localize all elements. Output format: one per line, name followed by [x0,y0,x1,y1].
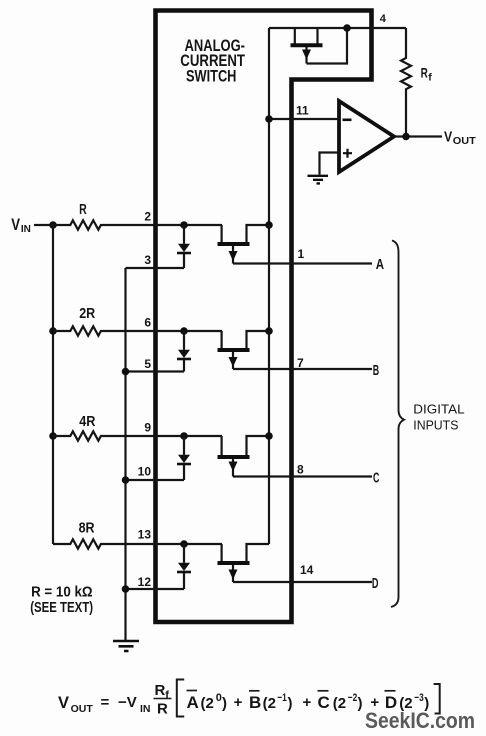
svg-text:(SEE TEXT): (SEE TEXT) [30,600,93,616]
formula right bracket [434,684,440,714]
transistor Q5 drain lead [316,28,318,44]
node ladder row2 [122,368,130,376]
wire pin 10 [126,479,185,481]
svg-text:2R: 2R [79,306,95,322]
svg-text:(2: (2 [201,695,214,712]
IC box U1 analog current switch outline [156,11,372,623]
svg-text:): ) [288,695,293,712]
formula overbar B [249,690,260,692]
wire pin 4 net horizontal [269,27,406,29]
svg-text:SeekIC.com: SeekIC.com [365,708,475,733]
svg-text:A: A [376,257,385,273]
svg-text:10: 10 [138,465,152,479]
transistor Q5 gate arrow [305,47,307,64]
svg-text:−3: −3 [414,692,424,704]
svg-text:+: + [234,694,243,711]
svg-text:DIGITAL: DIGITAL [413,403,464,417]
svg-text:R: R [79,202,87,218]
svg-text:2: 2 [144,210,151,224]
svg-text:(2: (2 [333,695,346,712]
svg-text:R: R [155,682,166,699]
svg-text:5: 5 [144,357,151,371]
wire left rail [52,225,54,544]
op-amp minus sign [343,119,352,122]
svg-text:C: C [318,693,330,712]
node bus row3 [265,432,273,440]
node VIN junction [49,221,57,229]
transistor Q4 [218,544,270,582]
formula left bracket [177,680,184,717]
transistor Q1 [218,225,270,264]
ground under op-amp [308,176,329,184]
node ladder row3 [122,476,130,484]
wire output B [233,368,372,370]
node diode D2 tap [180,327,188,335]
node bus row2 [265,327,273,335]
wire output D [233,581,372,583]
node junction at pin4 wire [343,24,351,32]
svg-text:A: A [187,693,199,712]
svg-text:6: 6 [144,316,151,330]
node ladder row4 [122,585,130,593]
node diode D1 tap [180,221,188,229]
svg-text:SWITCH: SWITCH [186,66,236,85]
svg-text:IN: IN [21,224,31,235]
svg-text:−2: −2 [348,692,358,704]
svg-text:1: 1 [298,247,305,261]
formula overbar D [385,690,396,692]
transistor Q5 channel bar [291,43,323,47]
wire ladder to ground [124,268,126,640]
svg-text:=: = [101,694,110,711]
svg-text:OUT: OUT [71,703,94,715]
diode D4 [177,544,191,589]
svg-text:0: 0 [216,692,222,704]
svg-text:R: R [157,701,168,718]
formula overbar A [187,690,198,692]
svg-text:4: 4 [380,13,387,25]
svg-text:V: V [444,129,452,146]
transistor Q3 [218,436,270,477]
svg-text:14: 14 [300,563,314,577]
resistor 2R [53,326,222,335]
svg-text:B: B [373,363,379,379]
wire summing bus vertical [268,28,270,544]
svg-text:3: 3 [144,253,151,267]
svg-text:D: D [372,576,379,592]
svg-text:+: + [303,694,312,711]
resistor 4R [53,431,222,440]
wire pin 5 [126,370,185,372]
formula VOUT equation [58,682,429,718]
svg-text:7: 7 [297,356,304,370]
op-amp plus sign [343,149,352,158]
wire pin 3 [126,267,185,269]
svg-text:B: B [249,693,261,712]
svg-text:R = 10 kΩ: R = 10 kΩ [31,584,93,600]
wire Q5 gate loop to drain node [307,28,348,64]
transistor Q5 source lead [294,28,296,44]
svg-text:): ) [358,695,363,712]
svg-text:C: C [373,470,380,486]
node rail row3 [49,432,57,440]
wire non-inverting input [320,153,340,175]
svg-text:8: 8 [297,463,304,477]
svg-text:V: V [58,694,69,712]
formula fraction bar [154,698,172,700]
wire pin 12 [126,588,185,590]
brace digital inputs [391,241,404,608]
node bus row1 [265,221,273,229]
svg-text:OUT: OUT [453,136,476,147]
node rail row2 [49,327,57,335]
node diode D3 tap [180,432,188,440]
svg-text:−V: −V [118,694,137,711]
svg-text:12: 12 [138,575,152,589]
wire output A [233,262,372,264]
resistor 8R [53,539,222,548]
label ANALOG-CURRENT SWITCH [180,36,245,85]
resistor Rf [401,28,411,137]
wire inverting input pin 11 [269,118,339,120]
node diode D4 tap [180,540,188,548]
svg-text:IN: IN [140,703,151,715]
wire op-amp output [394,135,442,137]
svg-text:(2: (2 [263,695,276,712]
ground bottom left [113,641,139,651]
svg-text:11: 11 [296,104,309,118]
op-amp U2 [339,101,394,172]
wire output C [233,475,372,477]
svg-text:f: f [428,72,432,84]
svg-text:V: V [11,216,20,234]
node output junction [402,133,410,141]
svg-text:R: R [421,64,428,80]
node junction bus to inverting input [265,115,273,123]
transistor Q2 [218,331,270,369]
diode D1 [177,225,191,268]
svg-text:8R: 8R [79,521,95,537]
svg-text:13: 13 [138,528,152,542]
diode D3 [177,436,191,480]
svg-text:INPUTS: INPUTS [413,419,458,433]
formula overbar C [318,690,329,692]
resistor R [34,220,222,229]
svg-text:4R: 4R [79,414,96,430]
svg-text:9: 9 [144,421,151,435]
svg-text:−1: −1 [277,692,287,704]
diode D2 [177,331,191,372]
svg-text:): ) [222,695,227,712]
